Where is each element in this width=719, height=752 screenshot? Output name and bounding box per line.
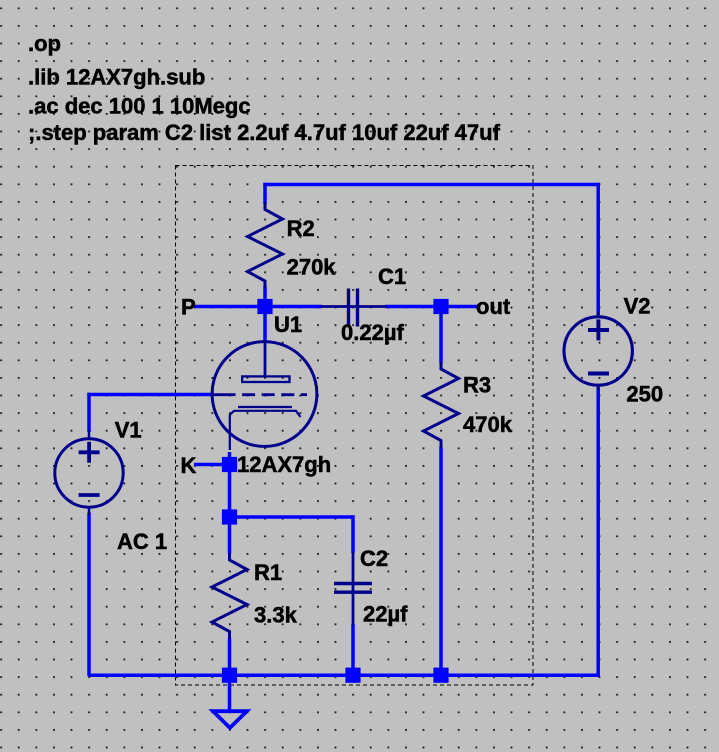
value AC 1	[117, 529, 167, 554]
wire P label stub	[194, 305, 265, 309]
junction bottom left	[222, 668, 237, 683]
label R1	[254, 560, 282, 585]
directive .lib	[28, 65, 205, 90]
value 270k	[287, 255, 337, 280]
op-amp/tube U1 envelope	[212, 342, 317, 447]
tube plate bar	[242, 376, 289, 382]
value 12AX7gh	[237, 452, 331, 477]
wire V2 top vertical	[596, 183, 600, 315]
svg-text:R1: R1	[254, 560, 282, 585]
wire C2 bottom vertical	[351, 624, 355, 674]
junction bottom C2	[345, 668, 360, 683]
svg-text:R3: R3	[463, 373, 491, 398]
svg-text:270k: 270k	[287, 255, 337, 280]
capacitor C1	[321, 289, 387, 327]
resistor R2	[248, 202, 283, 289]
wire plate stub	[263, 307, 267, 344]
wire mid junction to C2	[230, 515, 354, 519]
junction bottom R3	[433, 668, 448, 683]
wire grid horizontal to tube	[87, 393, 213, 397]
voltage source V1	[55, 431, 123, 515]
tube grid dashes	[212, 393, 307, 396]
svg-text:C2: C2	[360, 546, 388, 571]
wire cathode to mid junction	[228, 452, 232, 517]
label R3	[463, 373, 491, 398]
wire R2 bottom stub	[263, 286, 267, 307]
value 3.3k	[254, 603, 298, 628]
svg-text:0.22µf: 0.22µf	[341, 320, 404, 345]
svg-text:;.step param C2 list 2.2uf 4.7: ;.step param C2 list 2.2uf 4.7uf 10uf 22…	[28, 120, 501, 145]
label U1	[274, 312, 302, 337]
svg-text:V1: V1	[115, 418, 142, 443]
label C1	[378, 264, 406, 289]
label C2	[360, 546, 388, 571]
svg-text:C1: C1	[378, 264, 406, 289]
svg-text:22µf: 22µf	[363, 602, 408, 627]
node out label	[476, 294, 511, 319]
wire V1 bottom vertical	[87, 513, 91, 677]
svg-text:out: out	[476, 294, 511, 319]
ground	[213, 711, 247, 728]
svg-text:U1: U1	[274, 312, 302, 337]
wire R1 bottom stub	[228, 638, 232, 674]
wire P node to C1	[265, 305, 322, 309]
tube cathode	[230, 407, 301, 450]
wire V2 bottom vertical	[596, 388, 600, 677]
svg-text:12AX7gh: 12AX7gh	[237, 452, 331, 477]
value 470k	[463, 412, 513, 437]
junction node K	[222, 457, 237, 472]
dashed selection box	[176, 166, 534, 686]
svg-text:250: 250	[626, 382, 663, 407]
resistor R3	[424, 362, 459, 449]
wire top horizontal	[263, 183, 600, 187]
label R2	[287, 216, 315, 241]
directive .op	[28, 31, 61, 56]
junction cathode mid	[222, 509, 237, 524]
value 0.22uf	[341, 320, 404, 345]
directive .step comment	[28, 120, 501, 145]
svg-text:P: P	[181, 295, 196, 320]
resistor R1	[212, 553, 247, 640]
wire C2 top vertical	[351, 515, 355, 553]
directive .ac	[28, 94, 251, 119]
junction node out	[433, 299, 448, 314]
label V1	[115, 418, 142, 443]
svg-text:.op: .op	[28, 31, 61, 56]
svg-text:3.3k: 3.3k	[254, 603, 298, 628]
wire out label stub	[441, 305, 478, 309]
svg-text:.ac dec 100 1 10Megc: .ac dec 100 1 10Megc	[28, 94, 251, 119]
svg-text:V2: V2	[624, 294, 651, 319]
wire R1 top stub	[228, 517, 232, 554]
capacitor C2	[334, 552, 372, 625]
wire C1 to out node	[385, 305, 441, 309]
svg-text:470k: 470k	[463, 412, 513, 437]
svg-text:.lib 12AX7gh.sub: .lib 12AX7gh.sub	[28, 65, 205, 90]
tube plate lead	[264, 342, 267, 377]
wire R3 top stub	[439, 307, 443, 364]
svg-text:R2: R2	[287, 216, 315, 241]
svg-text:AC 1: AC 1	[117, 529, 167, 554]
wire R3 bottom stub	[439, 447, 443, 674]
wire K label stub	[194, 463, 230, 467]
junction node P	[257, 299, 272, 314]
wire bottom horizontal	[89, 673, 600, 677]
node P label	[181, 295, 196, 320]
wire ground stub	[228, 674, 232, 710]
label V2	[624, 294, 651, 319]
wire R2 top stub	[263, 183, 267, 204]
node K label	[181, 453, 197, 478]
svg-text:K: K	[181, 453, 197, 478]
value 250	[626, 382, 663, 407]
value 22uf	[363, 602, 408, 627]
wire V1 top vertical	[87, 393, 91, 432]
voltage source V2	[564, 312, 632, 390]
